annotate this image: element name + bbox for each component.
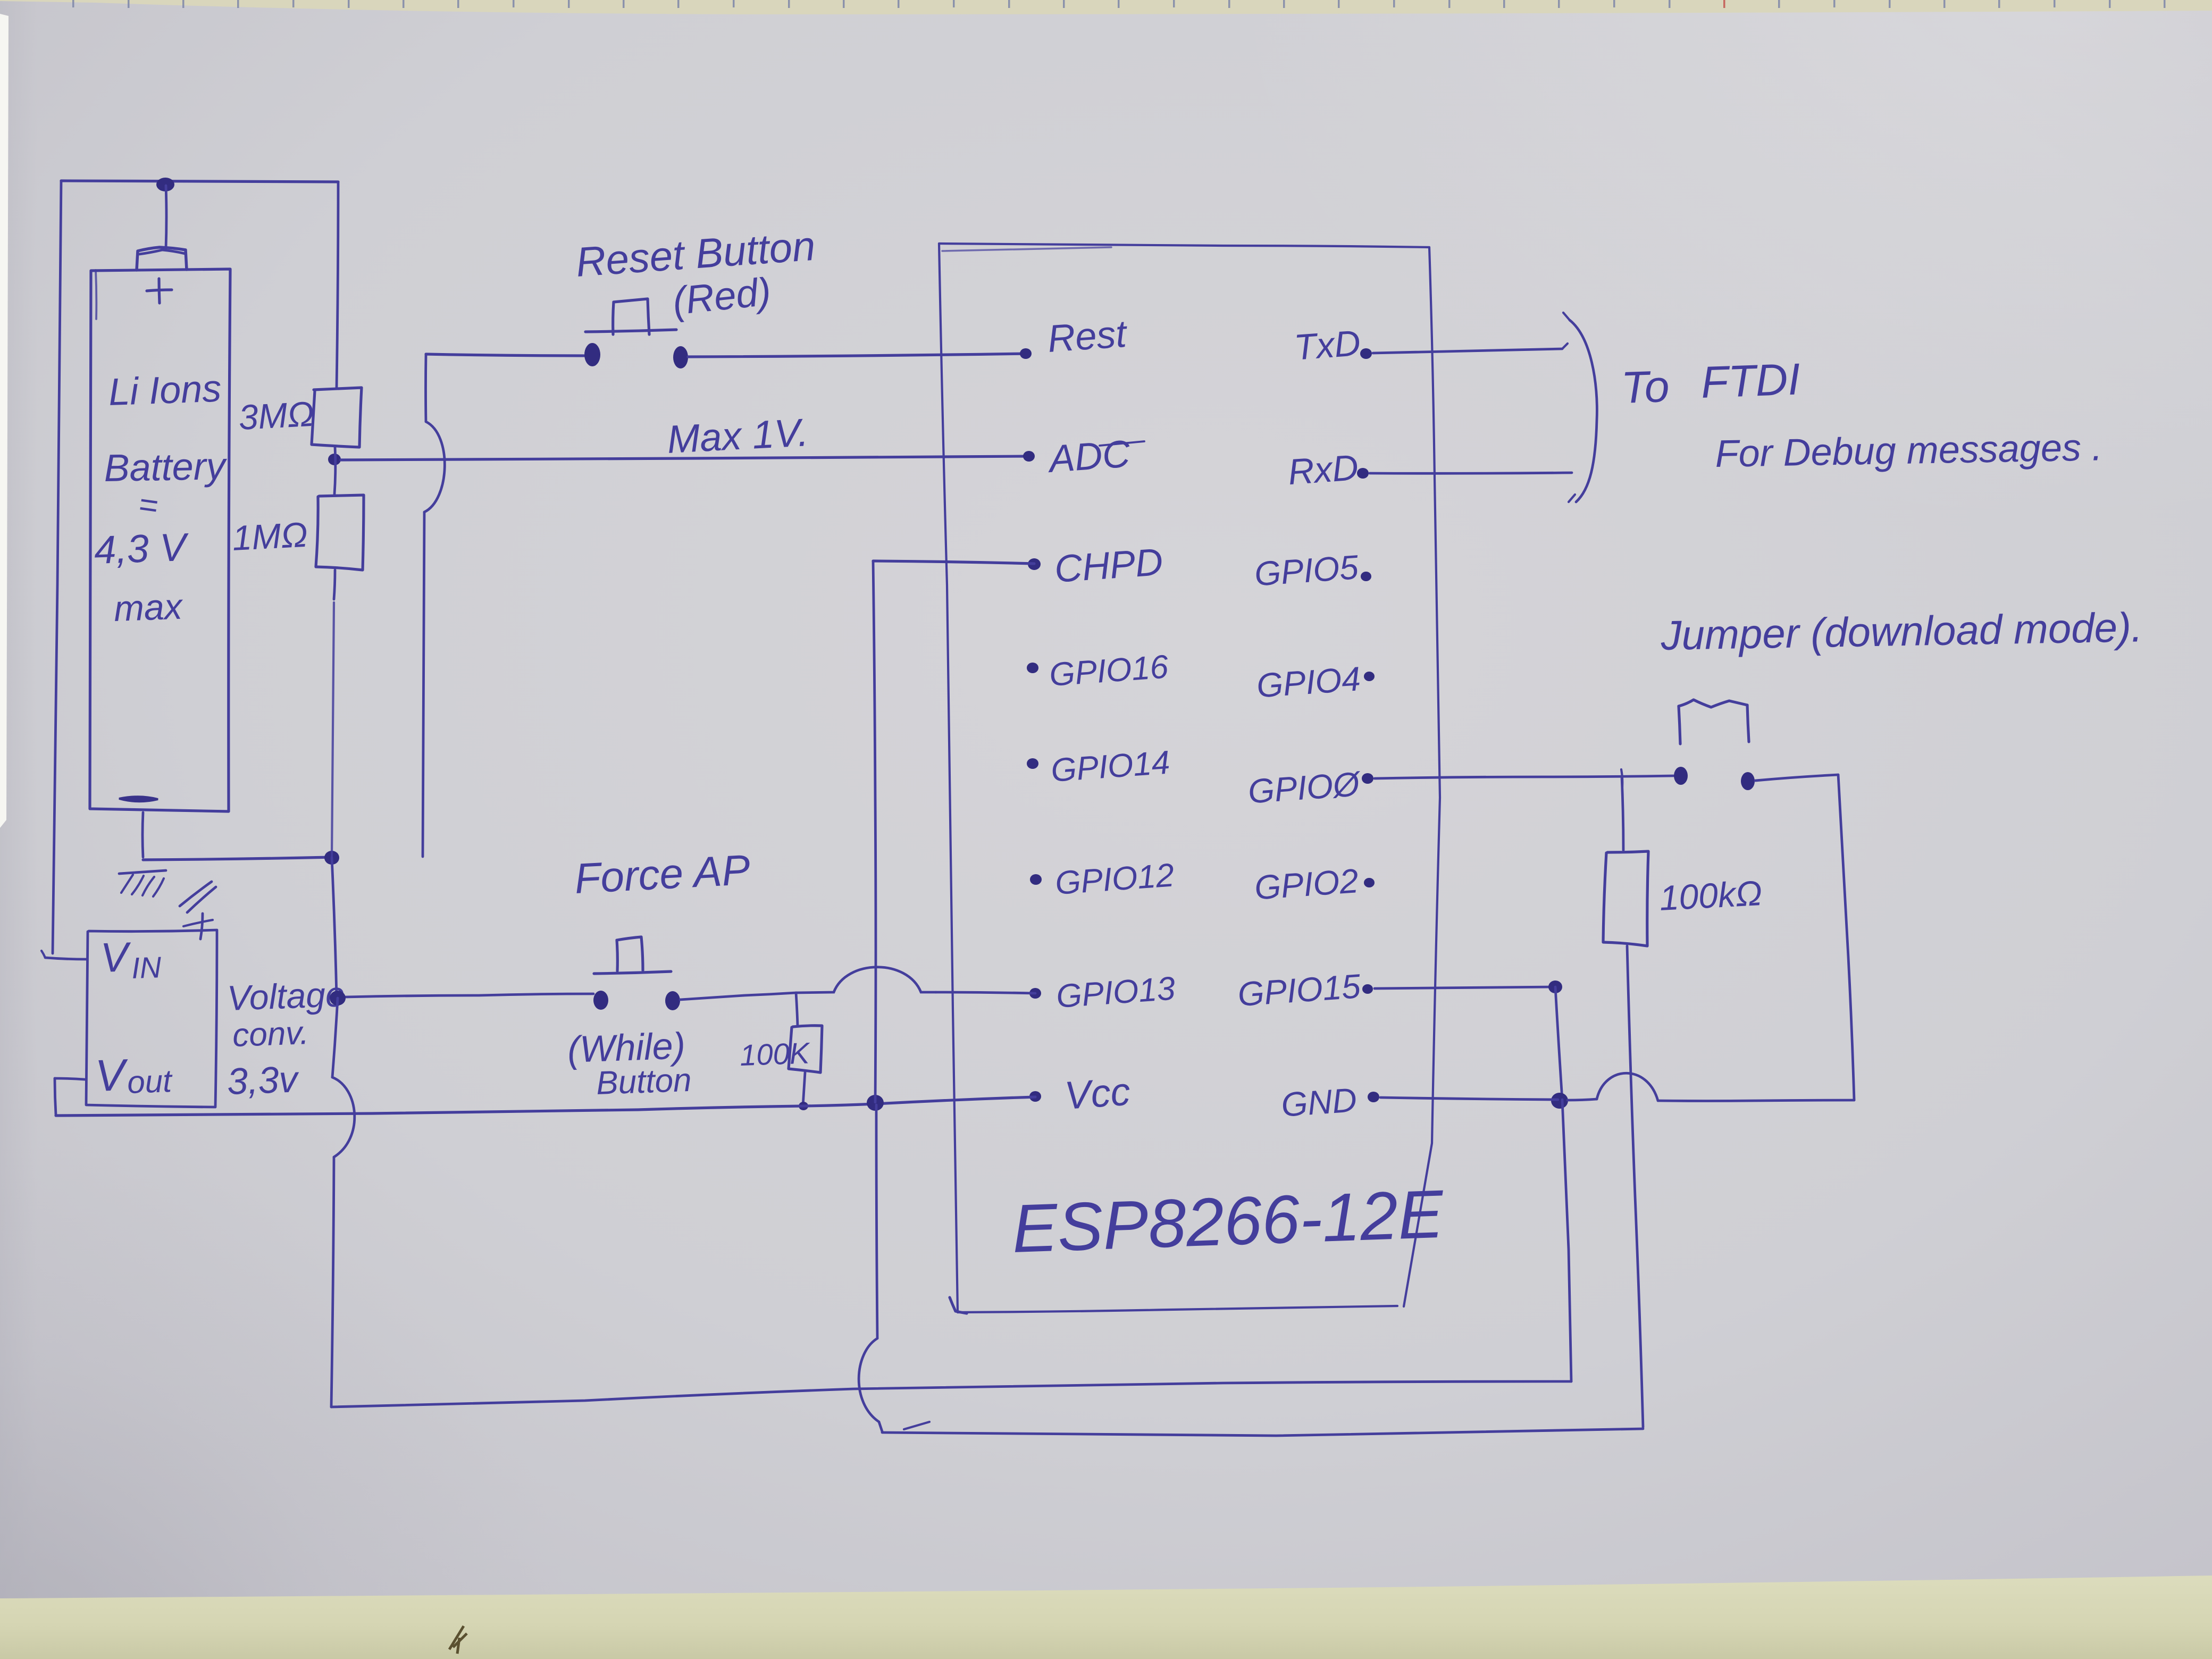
svg-text:GPIO2: GPIO2: [1253, 861, 1360, 907]
svg-text:Max 1V.: Max 1V.: [666, 410, 809, 462]
bracket bottom hook: [1569, 495, 1575, 502]
pin GPIO4: [1364, 672, 1375, 681]
bottom table surface: [0, 1576, 2212, 1659]
wire TxD out: [1373, 349, 1562, 353]
resistor R4 100K box: [789, 1026, 822, 1073]
stray mark above VIN 4: [183, 920, 213, 926]
wire reset to Rest pin: [688, 354, 1026, 357]
wire VIN stub: [45, 958, 86, 959]
wire top rail battery+ to divider: [61, 181, 338, 182]
junction GND node: [1551, 1093, 1568, 1109]
wire riser GPIO15 to GND: [1555, 987, 1562, 1100]
resistor R2 1M box: [316, 495, 364, 570]
jumper J1 contact right: [1741, 772, 1755, 790]
wire CHPD riser below Vcc: [876, 1105, 877, 1338]
jumper J1 staple top: [1679, 700, 1747, 707]
junction force AP tap: [330, 991, 346, 1006]
jumper J1 staple left leg: [1679, 706, 1680, 744]
svg-text:100K: 100K: [739, 1036, 811, 1072]
left paper edge: [0, 14, 9, 828]
pin label ADC dash: [1100, 441, 1144, 446]
switch SW2 contact right: [665, 991, 680, 1010]
pin ADC: [1023, 451, 1035, 462]
wire left outer loop vertical: [53, 181, 61, 953]
op ESP8266 box left edge: [939, 244, 958, 1312]
battery plus sign vertical: [159, 279, 160, 303]
pin GPIO0: [1362, 773, 1373, 784]
switch SW1 reset baseline: [585, 330, 676, 332]
pin GPIO16: [1027, 663, 1038, 673]
svg-text:Rest: Rest: [1046, 313, 1129, 361]
jumper J1 contact left: [1674, 767, 1688, 785]
svg-text:1MΩ: 1MΩ: [231, 515, 309, 558]
svg-text:V: V: [94, 1050, 129, 1101]
ground symbol hatch 1: [121, 875, 133, 893]
wire ADC from divider: [341, 456, 1029, 460]
svg-text:CHPD: CHPD: [1053, 541, 1164, 591]
svg-text:Li Ions: Li Ions: [108, 367, 222, 414]
junction battery+ top rail: [156, 178, 174, 191]
switch SW2 contact left: [593, 991, 608, 1010]
svg-text:ADC: ADC: [1046, 432, 1132, 481]
resistor R3 100k box: [1603, 851, 1648, 946]
top sheet band: [0, 0, 2212, 14]
junction GPIO15 riser: [1548, 981, 1562, 993]
pin GPIO13: [1029, 988, 1041, 999]
wire GPIO15 to riser: [1375, 987, 1555, 988]
junction ADC divider node: [328, 454, 341, 465]
svg-text:Button: Button: [596, 1062, 692, 1102]
wire reset riser hop over ADC: [424, 422, 445, 512]
wire GND from pin: [1380, 1097, 1558, 1100]
svg-text:GND: GND: [1280, 1080, 1358, 1124]
pin GPIO5: [1361, 572, 1371, 581]
op ESP8266 box right edge: [1404, 247, 1440, 1306]
svg-text:Vcc: Vcc: [1063, 1069, 1132, 1118]
switch SW1 contact right: [673, 346, 688, 368]
svg-text:Voltage: Voltage: [227, 974, 346, 1018]
wire GND rail lower: [331, 1157, 334, 1407]
svg-text:IN: IN: [131, 950, 162, 985]
wire R4 top stem: [796, 993, 798, 1026]
ground symbol hatch 4: [153, 878, 164, 896]
svg-text:Jumper (download mode).: Jumper (download mode).: [1660, 604, 2143, 659]
battery minus bar: [119, 797, 158, 801]
wire reset corner to button: [426, 354, 584, 356]
battery B1 left edge double stroke: [96, 270, 96, 319]
battery B1 cap top double: [139, 250, 185, 254]
wire R2 bottom lead: [334, 570, 335, 599]
svg-text:conv.: conv.: [232, 1015, 309, 1054]
wire GND rail hop over Vcc: [332, 1077, 355, 1157]
svg-text:4,3 V: 4,3 V: [94, 525, 190, 572]
pin GPIO2: [1364, 878, 1375, 887]
op ESP8266 box bottom-left hook: [950, 1297, 967, 1313]
battery plus sign: [147, 290, 172, 291]
stray mark above VIN 3: [200, 914, 203, 939]
pin GND: [1368, 1092, 1379, 1102]
svg-text:FTDI: FTDI: [1700, 354, 1801, 407]
wire GND to jumper leg: [1658, 1100, 1854, 1101]
bracket to FTDI: [1570, 320, 1597, 502]
wire TxD end hook: [1562, 343, 1568, 349]
svg-text:3MΩ: 3MΩ: [238, 394, 315, 437]
wire R3 bottom stem: [1627, 946, 1643, 1427]
wire Vcc rail: [56, 1097, 1035, 1116]
svg-text:GPIOØ: GPIOØ: [1247, 765, 1363, 811]
svg-text:100kΩ: 100kΩ: [1658, 873, 1763, 918]
junction R4 on Vcc rail: [799, 1102, 808, 1110]
top sheet band ticks: [72, 0, 2166, 8]
wire R3 tap tick: [1621, 769, 1622, 787]
wire GND right segment: [1568, 1099, 1597, 1100]
wire divider mid lead: [334, 447, 336, 494]
svg-text:Force AP: Force AP: [573, 846, 751, 902]
battery B1 positive cap: [137, 247, 187, 270]
wire GND rail upper: [332, 858, 337, 997]
resistor R1 3M box: [312, 388, 362, 447]
svg-text:max: max: [113, 586, 184, 629]
junction Vcc CHPD riser: [867, 1095, 884, 1111]
op ESP8266 box top edge double: [942, 247, 1111, 251]
wire VIN stub hook: [41, 951, 45, 958]
svg-text:Battery: Battery: [104, 445, 228, 490]
wire R2 bottom lead faint: [332, 602, 334, 857]
wire GND riser down to bottom rail: [1562, 1100, 1571, 1381]
switch SW1 contact left: [584, 343, 600, 366]
junction ground node: [324, 851, 339, 865]
wire battery- stub: [143, 812, 143, 857]
wire bottom GND rail horizontal: [331, 1381, 1571, 1407]
wire riser overshoot tick: [904, 1422, 929, 1429]
switch SW2 force cap: [617, 937, 643, 971]
pin TxD: [1360, 348, 1372, 359]
wire divider top lead: [337, 182, 338, 388]
svg-text:For Debug messages .: For Debug messages .: [1715, 426, 2103, 475]
wire CHPD from pin: [873, 561, 1034, 564]
pin GPIO12: [1030, 874, 1042, 885]
svg-text:GPIO4: GPIO4: [1255, 659, 1362, 705]
switch SW2 force baseline: [594, 971, 671, 974]
svg-text:3,3v: 3,3v: [227, 1058, 300, 1102]
wire force AP to tap: [680, 993, 796, 1000]
svg-text:TxD: TxD: [1293, 323, 1362, 368]
bracket top hook: [1563, 313, 1570, 320]
wire GPIO13 hop over riser: [796, 967, 936, 993]
wire R3 top stem: [1622, 777, 1623, 850]
wire battery+ lead: [166, 186, 166, 248]
pin Rest: [1020, 348, 1032, 359]
svg-text:GPIO5: GPIO5: [1253, 548, 1360, 593]
wire Vout step down: [55, 1078, 56, 1115]
op ESP8266 box top edge: [939, 244, 1429, 247]
wire riser hop over bottom GND rail: [859, 1338, 882, 1431]
ground symbol hatch 3: [143, 877, 154, 895]
stray mark above VIN 1: [180, 882, 212, 906]
wire GND rail mid: [332, 998, 338, 1077]
wire CHPD riser: [873, 561, 876, 1102]
wire jumper to corner: [1755, 775, 1838, 781]
pin GPIO14: [1027, 758, 1038, 769]
wire Vout stub: [55, 1078, 85, 1079]
pin CHPD: [1028, 558, 1041, 570]
wire jumper right leg down: [1838, 775, 1854, 1100]
pin Vcc: [1029, 1091, 1041, 1102]
wire GND hop over R3 stem: [1597, 1073, 1658, 1101]
wire reset ground riser: [423, 512, 424, 857]
op ESP8266 box bottom edge: [958, 1306, 1397, 1312]
wire bottom Vcc rail horizontal: [882, 1429, 1643, 1436]
stray mark above VIN 2: [187, 887, 216, 912]
wire hop to GPIO13 pin: [936, 992, 1035, 993]
bottom debris mark: [449, 1626, 467, 1654]
ground symbol baseline: [119, 870, 166, 874]
jumper J1 staple right leg: [1747, 705, 1749, 742]
svg-text:ESP8266-12E: ESP8266-12E: [1011, 1176, 1445, 1267]
ground symbol hatch 2: [132, 876, 144, 894]
svg-text:out: out: [127, 1063, 173, 1100]
wire GPIO0 to jumper: [1375, 776, 1673, 778]
wire reset riser upper: [424, 355, 427, 422]
wire force AP left: [346, 994, 593, 997]
battery B1 box: [90, 269, 230, 811]
op U1 voltage conv box: [86, 930, 217, 1107]
wire RxD out: [1370, 473, 1572, 473]
pin GPIO15: [1362, 984, 1373, 994]
pin RxD: [1357, 468, 1369, 479]
switch SW1 reset cap: [613, 299, 649, 334]
svg-text:To: To: [1620, 361, 1670, 413]
wire ground run to junction: [143, 857, 332, 860]
wire R4 bottom stem: [803, 1073, 805, 1106]
svg-text:RxD: RxD: [1287, 447, 1360, 492]
